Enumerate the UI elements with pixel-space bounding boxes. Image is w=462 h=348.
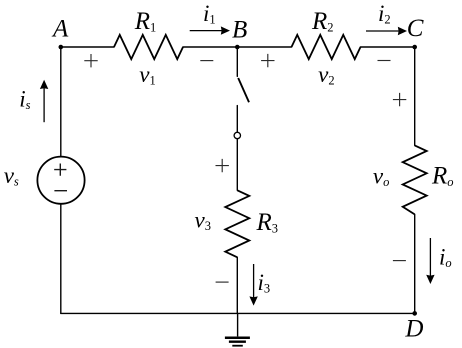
node A — [51, 16, 69, 50]
svg-text:R2: R2 — [311, 8, 334, 35]
current arrow is — [19, 80, 48, 122]
node B — [232, 17, 247, 50]
resistor R3 — [225, 190, 249, 257]
node C — [407, 15, 424, 50]
node D — [404, 311, 423, 343]
voltage source vs — [37, 157, 84, 204]
current arrow i2 — [366, 1, 407, 35]
svg-text:vs: vs — [4, 163, 19, 189]
svg-text:is: is — [19, 87, 30, 113]
wire left A down to source — [60, 47, 62, 157]
wire top A to R1 — [61, 46, 115, 48]
resistor Ro — [403, 145, 427, 214]
svg-text:i3: i3 — [258, 270, 271, 296]
wire switch circle to R3 — [236, 139, 238, 191]
svg-text:io: io — [439, 245, 452, 271]
wire top R2 to C — [361, 46, 415, 48]
wire switch lower terminal — [236, 106, 238, 133]
switch open terminal circle — [234, 132, 240, 138]
svg-text:i2: i2 — [378, 1, 391, 27]
polarity + for vo — [393, 93, 406, 106]
switch blade at B — [238, 78, 249, 102]
wire right C down to Ro — [414, 47, 416, 145]
ground — [225, 313, 250, 345]
polarity - for v3 — [216, 281, 229, 283]
polarity - for vo — [393, 260, 406, 262]
resistor R2 — [292, 35, 361, 59]
polarity + for v1 — [84, 54, 97, 67]
svg-text:i1: i1 — [203, 1, 216, 27]
resistor R1 — [114, 35, 183, 59]
polarity - for v2 — [378, 60, 391, 62]
wire right Ro to D — [414, 214, 416, 313]
svg-text:R3: R3 — [256, 209, 279, 236]
svg-text:A: A — [51, 16, 69, 43]
wire B down to switch — [236, 47, 238, 76]
current arrow i1 — [190, 1, 230, 35]
current arrow io — [426, 238, 451, 284]
svg-text:v1: v1 — [139, 62, 155, 88]
svg-text:v3: v3 — [195, 208, 211, 234]
wire top R1 to R2 through node B — [183, 46, 292, 48]
svg-text:R1: R1 — [134, 8, 157, 35]
wire left source down to bottom — [60, 204, 62, 314]
wire bottom D to left — [61, 312, 415, 314]
svg-text:Ro: Ro — [431, 163, 454, 190]
svg-text:D: D — [404, 316, 423, 343]
wire R3 to bottom — [236, 257, 238, 313]
current arrow i3 — [249, 264, 270, 306]
svg-text:vo: vo — [373, 164, 389, 190]
polarity - for v1 — [200, 60, 213, 62]
svg-text:B: B — [232, 17, 247, 44]
polarity + for v2 — [261, 54, 274, 67]
svg-text:C: C — [407, 15, 424, 42]
svg-text:v2: v2 — [318, 62, 334, 88]
polarity + for v3 — [216, 159, 229, 172]
